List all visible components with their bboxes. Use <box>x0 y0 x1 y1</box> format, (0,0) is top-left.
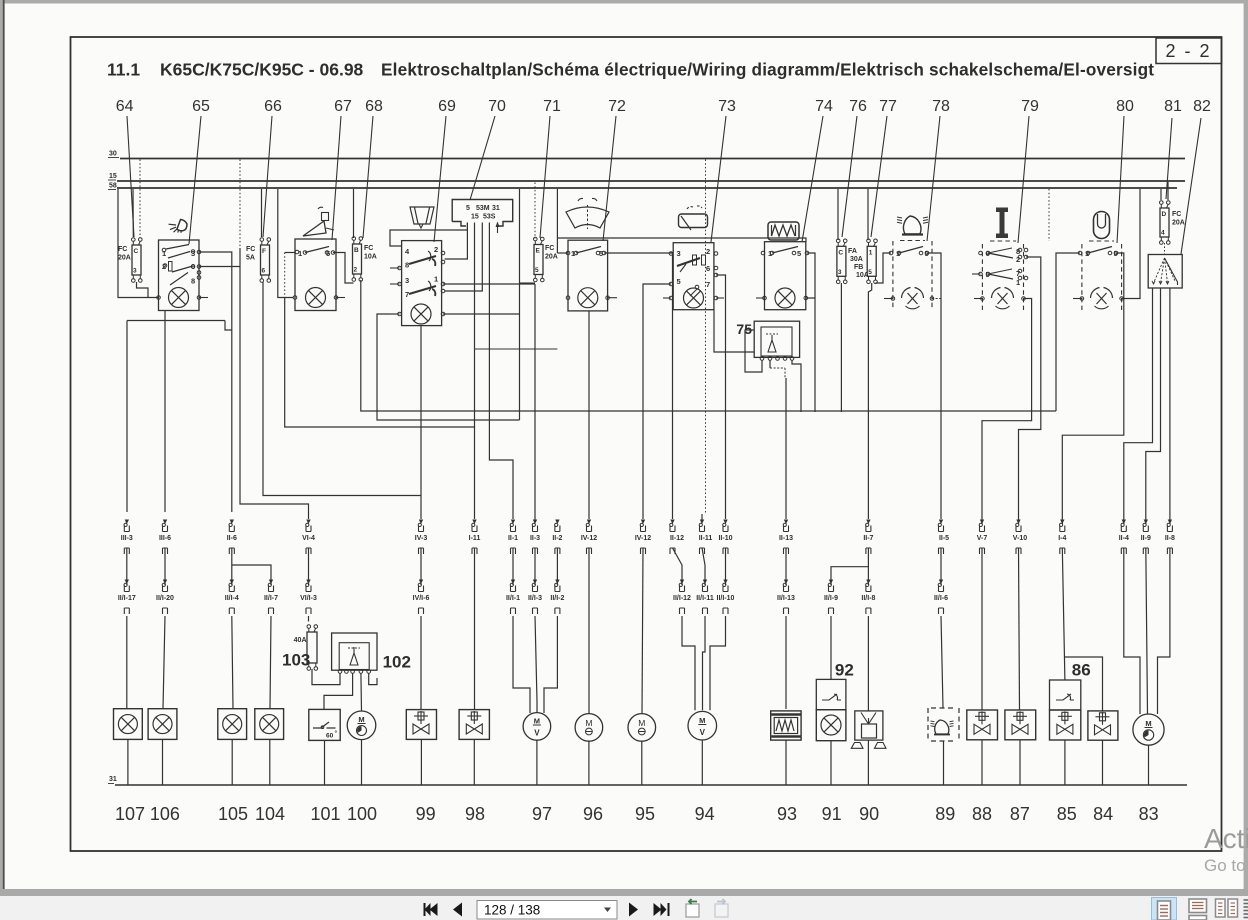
connector IV-3 <box>419 520 423 525</box>
wire S80 left rail <box>1056 253 1080 411</box>
fuse FC20A F71 <box>534 245 543 275</box>
leader line 70 <box>470 116 495 200</box>
leader line 66 <box>263 116 272 237</box>
connector II-8 <box>1168 520 1172 525</box>
leader line 82 <box>1181 118 1201 254</box>
wire F66 down <box>263 282 421 496</box>
svg-text:II/I-11: II/I-11 <box>696 595 714 602</box>
toolbar page input <box>477 901 617 920</box>
wire II-9 to 83 <box>1146 548 1148 714</box>
connector II-11 <box>700 520 704 525</box>
svg-text:II-7: II-7 <box>863 535 873 542</box>
svg-text:2: 2 <box>706 247 710 256</box>
connector II-10 <box>723 520 727 525</box>
wire bus58 to F68 <box>353 189 355 238</box>
toolbar single-page button <box>1189 899 1207 913</box>
svg-text:103: 103 <box>282 651 310 670</box>
svg-text:75: 75 <box>736 321 752 337</box>
svg-text:30A: 30A <box>850 256 863 263</box>
wire II-11 col lower <box>702 548 705 585</box>
svg-text:°: ° <box>335 729 338 737</box>
svg-text:M: M <box>358 715 364 724</box>
svg-text:II/I-4: II/I-4 <box>225 595 239 602</box>
lamp in S74 <box>775 288 795 308</box>
connector II/I-8 <box>866 580 870 585</box>
page index box 2-2 <box>1156 38 1222 64</box>
svg-text:91: 91 <box>822 804 842 824</box>
wire II-13 col lower <box>785 548 787 585</box>
svg-text:73: 73 <box>718 98 736 115</box>
wire S67 pin5 to F68 <box>333 253 354 284</box>
connector III-3 <box>125 520 129 525</box>
svg-text:FC: FC <box>246 246 255 253</box>
lamp in S72 <box>578 288 598 308</box>
wire S79 lamp right to V-7 <box>982 299 1032 525</box>
connector K82 <box>1148 255 1182 289</box>
wire II/I-8 to 90 <box>867 616 869 711</box>
svg-text:2: 2 <box>434 245 438 254</box>
svg-text:V-10: V-10 <box>1013 535 1028 542</box>
wire bus58 x277 to lamp67 <box>278 189 294 298</box>
wire column IV-3 to IV/I-6 <box>420 548 422 585</box>
wire column III-6 to 106 <box>164 548 166 585</box>
connector II-5 <box>939 520 943 525</box>
connector I-4 <box>1060 520 1064 525</box>
lamp in S73 <box>684 288 704 308</box>
svg-text:10A: 10A <box>856 272 869 279</box>
wire bus58 to F66 <box>261 189 263 237</box>
K70 pin 31 line <box>489 223 513 520</box>
bus 31 <box>115 784 1187 786</box>
motor M95 <box>628 714 656 742</box>
svg-text:2 - 2: 2 - 2 <box>1165 41 1211 61</box>
lamp L105 <box>218 709 247 740</box>
wire bus to F81 <box>1160 189 1162 200</box>
svg-text:II-5: II-5 <box>939 535 949 542</box>
leader line 79 <box>1018 116 1029 243</box>
leader line 74 <box>802 116 823 242</box>
fuse FB10A F77 <box>867 246 876 276</box>
wire II-5 col <box>940 548 942 585</box>
leader line 77 <box>871 116 887 237</box>
svg-text:78: 78 <box>932 98 950 115</box>
wire S69 bottom to IV-3 <box>420 326 422 519</box>
svg-text:IV/I-6: IV/I-6 <box>413 595 430 602</box>
svg-text:20A: 20A <box>1172 220 1185 227</box>
svg-text:40A: 40A <box>294 637 307 644</box>
bus 58 <box>117 187 1177 189</box>
wire column II/I-4 to 105 <box>232 616 233 709</box>
motor M96 <box>575 714 603 742</box>
wire S72 pin1 left <box>557 252 568 254</box>
wire column VI-4 to VI/I-3 <box>308 548 310 585</box>
connector II-3 <box>533 520 537 525</box>
svg-text:B: B <box>354 247 359 254</box>
wire F81 to K82 dotted <box>1164 243 1166 255</box>
svg-text:107: 107 <box>115 804 145 824</box>
connector V-10 <box>1016 520 1020 525</box>
connector II/I-13 <box>784 580 788 585</box>
connector II-4 <box>1122 520 1126 525</box>
wire S72 pin5 to II-12 <box>604 253 673 519</box>
connector II/I-10 <box>723 580 727 585</box>
svg-text:128 / 138: 128 / 138 <box>484 903 540 918</box>
wire dotted column II-11 <box>705 160 707 515</box>
lamp in S80 <box>1091 288 1100 299</box>
wire II-10 col lower <box>725 548 727 585</box>
connector II-12 <box>670 520 674 525</box>
wire S73 pin to II-10 <box>716 275 726 519</box>
svg-text:104: 104 <box>255 804 285 824</box>
connector III-6 <box>163 520 167 525</box>
wire K102 to 101 <box>324 673 353 709</box>
valve V87 <box>1005 710 1036 740</box>
svg-text:M: M <box>1145 719 1151 728</box>
svg-text:II/I-17: II/I-17 <box>118 595 136 602</box>
svg-text:C: C <box>838 249 843 256</box>
wire S78 pin5 right down II-5 <box>927 253 941 299</box>
wire II-8 to 83 <box>1158 548 1170 714</box>
svg-text:II-12: II-12 <box>670 535 684 542</box>
svg-text:II/I-2: II/I-2 <box>550 595 564 602</box>
leader line 69 <box>434 116 446 242</box>
svg-text:FC: FC <box>1172 211 1181 218</box>
svg-text:74: 74 <box>815 98 833 115</box>
connector II-6 <box>230 520 234 525</box>
svg-text:90: 90 <box>859 804 879 824</box>
rail y238 <box>556 189 558 253</box>
wire column II-6 branch <box>231 548 233 585</box>
wire II-2 col <box>556 548 558 585</box>
wire S69 top-left loop to K70 pin5 <box>390 223 467 247</box>
connector II/I-1 <box>511 580 515 585</box>
switch S67 <box>295 239 336 311</box>
wire x284 down to I-11 rail <box>285 298 475 520</box>
wire S73 lamp row stubs <box>663 297 671 299</box>
toolbar next-page button <box>629 903 638 917</box>
svg-text:15: 15 <box>471 214 479 221</box>
svg-text:53M: 53M <box>476 205 490 212</box>
wire bus58 down x118 <box>118 189 158 298</box>
svg-text:IV-3: IV-3 <box>415 535 428 542</box>
fuse FC5A F66 <box>261 245 270 275</box>
wire I-4 to relay 86 <box>1062 548 1065 680</box>
connector II/I-9 <box>829 580 833 585</box>
wire bus58 to F76 <box>837 189 839 240</box>
wire bus58 to F77 <box>867 189 869 240</box>
svg-text:3: 3 <box>133 268 137 275</box>
wire S79 left down V-7 <box>972 273 981 275</box>
svg-text:II-4: II-4 <box>1119 535 1129 542</box>
svg-text:96: 96 <box>583 804 603 824</box>
wire S74 lamp right down to rail <box>806 298 815 412</box>
lamp L91 <box>816 710 846 741</box>
wire II-3 col <box>534 548 536 585</box>
washer icon 72 <box>566 207 609 228</box>
svg-text:FC: FC <box>118 246 127 253</box>
switch S72 washer <box>568 240 608 311</box>
lamp in S67 <box>306 288 326 308</box>
connector II-1 <box>511 520 515 525</box>
svg-text:81: 81 <box>1164 98 1182 115</box>
svg-text:1: 1 <box>869 249 873 256</box>
wire II/I-9 to relay 92 <box>830 616 832 679</box>
svg-text:106: 106 <box>150 804 180 824</box>
wire V-7 to 88 <box>981 548 983 710</box>
connector I-11 <box>472 520 476 525</box>
wire S69 pin1 to F71 bottom <box>443 283 535 285</box>
svg-text:105: 105 <box>218 804 248 824</box>
lamp in S65 <box>169 288 189 308</box>
tv unit 90 <box>855 711 883 740</box>
svg-text:93: 93 <box>777 804 797 824</box>
connector VI-4 <box>306 520 310 525</box>
svg-text:II-9: II-9 <box>1141 535 1151 542</box>
wire junction I-11 to II-2 <box>475 348 558 350</box>
svg-text:5: 5 <box>466 205 470 212</box>
wire II-1 col <box>512 548 514 585</box>
leader line 71 <box>540 116 550 238</box>
leader line 78 <box>927 116 940 241</box>
fuse FC20A F64 <box>132 245 141 275</box>
svg-text:98: 98 <box>465 804 485 824</box>
svg-text:II/I-20: II/I-20 <box>156 595 174 602</box>
bus 15 <box>117 180 1185 182</box>
svg-text:87: 87 <box>1010 804 1030 824</box>
svg-text:77: 77 <box>879 98 897 115</box>
svg-text:M: M <box>534 717 540 726</box>
svg-text:II/I-1: II/I-1 <box>506 595 520 602</box>
wire F71 down II-3 <box>534 284 536 522</box>
svg-text:II/I-3: II/I-3 <box>528 595 542 602</box>
beacon icon 78 <box>903 216 921 234</box>
toolbar previous-view icon <box>686 904 699 917</box>
svg-text:11.1: 11.1 <box>107 60 140 80</box>
wire II-11 col <box>701 514 703 521</box>
wire branch to 84 <box>1065 657 1103 711</box>
svg-text:II-2: II-2 <box>552 535 562 542</box>
switch S69 wiper <box>402 241 442 326</box>
leader line 72 <box>603 116 616 241</box>
svg-text:69: 69 <box>438 98 456 115</box>
svg-text:3: 3 <box>677 249 681 258</box>
svg-text:95: 95 <box>635 804 655 824</box>
wire bus58 x1140 to lamp80 <box>1122 189 1140 299</box>
switch S79 dashed box <box>981 244 983 310</box>
K70 arrow 53S <box>497 223 499 234</box>
pump M97 <box>523 713 551 741</box>
mirror icon 80 <box>1094 212 1110 239</box>
lamp L107 <box>114 709 143 740</box>
wire bus58 dotted x1049 <box>1048 189 1050 241</box>
wire IV/I-6 to 99 <box>420 616 422 710</box>
svg-text:FA: FA <box>848 248 857 255</box>
svg-text:85: 85 <box>1057 804 1077 824</box>
svg-text:92: 92 <box>835 661 854 680</box>
cigarette lighter icon 79 <box>996 208 1008 239</box>
connector II/I-12 <box>680 580 684 585</box>
connector II/I-11 <box>703 580 707 585</box>
connector II-7 <box>866 520 870 525</box>
svg-text:6: 6 <box>262 268 266 275</box>
svg-text:71: 71 <box>543 98 561 115</box>
relay K86 <box>1050 680 1081 710</box>
wire column I-11 to 98 <box>474 548 476 710</box>
svg-text:80: 80 <box>1116 98 1134 115</box>
wire S65 pin3 to II-6 <box>199 252 232 512</box>
wire column II/I-7 to 104 <box>270 616 271 709</box>
valve V99 <box>406 710 436 740</box>
svg-text:FC: FC <box>364 245 373 252</box>
svg-text:83: 83 <box>1139 804 1159 824</box>
connector II/I-3 <box>533 580 537 585</box>
wire F76 down <box>840 283 842 412</box>
connector IV-12 <box>587 520 591 525</box>
svg-text:II-3: II-3 <box>530 535 540 542</box>
svg-text:II-11: II-11 <box>699 535 713 542</box>
svg-text:II-6: II-6 <box>227 535 237 542</box>
svg-text:III-3: III-3 <box>121 535 133 542</box>
switch S65 <box>159 240 200 311</box>
leader line 80 <box>1117 116 1124 243</box>
svg-text:Go to S: Go to S <box>1204 856 1248 875</box>
wire S73 pin5 left to IV-12b <box>643 284 671 519</box>
svg-text:VI-4: VI-4 <box>302 535 315 542</box>
svg-text:82: 82 <box>1193 98 1211 115</box>
squeegee icon 73 <box>679 214 708 228</box>
toolbar prev-document button <box>430 903 438 916</box>
wire S74 lamp left stub <box>756 297 765 299</box>
svg-text:II/I-10: II/I-10 <box>717 595 735 602</box>
svg-text:II/I-12: II/I-12 <box>673 595 691 602</box>
svg-text:5: 5 <box>535 267 539 274</box>
svg-text:V-7: V-7 <box>977 535 988 542</box>
window left border <box>3 0 5 896</box>
connector IV/I-6 <box>419 580 423 585</box>
svg-text:IV-12: IV-12 <box>581 535 597 542</box>
wire bus58 to F64 <box>132 189 134 237</box>
lamp in S78 <box>902 288 911 299</box>
svg-text:8: 8 <box>405 261 409 270</box>
svg-text:94: 94 <box>695 804 715 824</box>
svg-text:30: 30 <box>109 151 117 158</box>
motor-clock M83 <box>1133 714 1164 745</box>
wire S72 bottom to IV-12 <box>588 311 590 519</box>
svg-text:II-10: II-10 <box>718 535 732 542</box>
connector II/I-6 <box>939 580 943 585</box>
wire bus15 dotted to F71 <box>534 183 536 239</box>
svg-text:60: 60 <box>326 733 334 740</box>
wire II-7 branch to II/I-9 <box>867 548 869 585</box>
svg-text:5A: 5A <box>246 255 255 262</box>
wire II-4 to 83 <box>1124 548 1140 714</box>
fuse 40A F103 <box>307 632 317 663</box>
connector II/I-7 <box>269 580 273 585</box>
svg-text:8: 8 <box>191 277 195 286</box>
valve V84 <box>1088 711 1118 740</box>
wire IV-12b to 95 <box>642 548 643 714</box>
leader line 64 <box>127 116 134 237</box>
connector II/I-20 <box>163 580 167 585</box>
relay K92 <box>816 679 846 709</box>
svg-text:F: F <box>262 248 266 255</box>
svg-text:3: 3 <box>838 269 842 276</box>
wire V-10 to 87 <box>1019 548 1020 710</box>
wire S69 left stubs <box>390 267 400 269</box>
svg-text:67: 67 <box>334 98 352 115</box>
svg-text:7: 7 <box>405 290 409 299</box>
heater icon 74 <box>768 222 799 240</box>
svg-text:99: 99 <box>416 804 436 824</box>
svg-text:10A: 10A <box>364 254 377 261</box>
fuse FC20A F81 <box>1160 208 1169 237</box>
svg-text:20A: 20A <box>545 254 558 261</box>
svg-text:1: 1 <box>434 275 438 284</box>
svg-text:58: 58 <box>109 183 117 190</box>
toolbar background <box>0 889 1248 920</box>
connector II/I-17 <box>125 580 129 585</box>
wire bus58 x520 <box>519 189 521 420</box>
wiper icon 69 <box>410 207 434 224</box>
svg-text:100: 100 <box>347 804 377 824</box>
wire IV-12a to 96 <box>588 548 590 714</box>
leader line 68 <box>363 116 373 238</box>
svg-text:76: 76 <box>849 98 867 115</box>
toolbar two-page button <box>1216 899 1226 917</box>
thermal switch S101 <box>309 709 340 740</box>
svg-text:31: 31 <box>109 776 117 783</box>
svg-text:V: V <box>700 728 706 737</box>
wire F64 out <box>137 282 149 298</box>
bus 30 <box>120 158 1185 160</box>
wire S78 pin1 to F77 <box>876 253 892 283</box>
connector II/I-2 <box>555 580 559 585</box>
svg-text:86: 86 <box>1072 661 1091 680</box>
svg-text:2: 2 <box>354 267 358 274</box>
svg-text:53S: 53S <box>483 214 496 221</box>
wire pin1 S67 dotted drop <box>285 252 296 254</box>
svg-text:84: 84 <box>1093 804 1113 824</box>
svg-text:I-4: I-4 <box>1058 535 1066 542</box>
K70 pin 53M line <box>445 223 483 292</box>
toolbar prev-page button <box>453 903 462 917</box>
K70 pin 5 line <box>466 223 468 231</box>
wire column III-3 to 107 <box>126 548 128 585</box>
wire K75 pins down <box>769 360 771 368</box>
svg-text:D: D <box>1162 211 1167 218</box>
svg-text:II/I-6: II/I-6 <box>934 595 948 602</box>
svg-text:64: 64 <box>116 98 134 115</box>
switch S80 dashed box <box>1081 244 1083 310</box>
svg-text:70: 70 <box>488 98 506 115</box>
lamp L104 <box>255 709 284 740</box>
svg-text:7: 7 <box>706 280 710 289</box>
leader line 73 <box>711 116 726 242</box>
lamp L106 <box>148 709 177 740</box>
wire S65 pin6 to VI-4 branch <box>199 266 240 268</box>
svg-text:II-13: II-13 <box>779 535 793 542</box>
connector IV-12 <box>641 520 645 525</box>
switch S74 heater <box>765 242 806 310</box>
lamp in S69 <box>411 304 431 324</box>
svg-text:72: 72 <box>608 98 626 115</box>
svg-text:88: 88 <box>972 804 992 824</box>
beacon 89 dashed box <box>927 708 929 741</box>
connector VI/I-3 <box>306 580 310 585</box>
svg-text:65: 65 <box>192 98 210 115</box>
leader line 76 <box>842 116 857 237</box>
wire lamp69 right to x520 <box>443 313 520 315</box>
